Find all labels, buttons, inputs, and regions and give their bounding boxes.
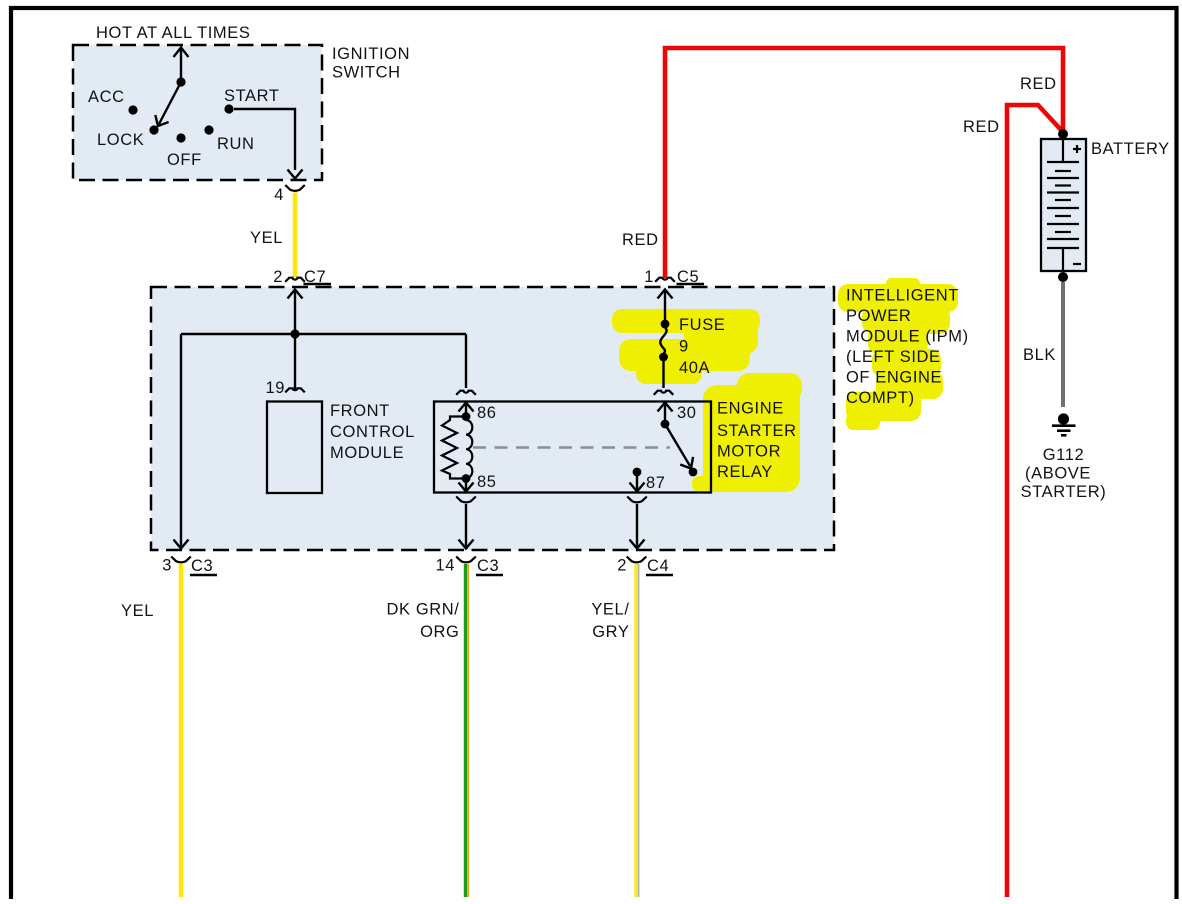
relay coil windings [466,420,472,478]
arrow at relay pin 85 exit [459,479,474,492]
junction dot [290,329,299,338]
contact dot START [224,104,233,113]
svg-text:FUSE: FUSE [679,316,725,334]
connector C7 hat [285,278,305,282]
svg-text:POWER: POWER [846,307,911,325]
ground G112 symbol [1052,413,1076,435]
entry arrow at relay pin 30 [658,403,673,425]
svg-text:RUN: RUN [217,135,255,153]
wire pin 85 to module exit [459,504,474,549]
relay pin 87 dot [633,468,642,477]
relay pin 85 dot [462,474,471,483]
wire to pin 3 exit [174,334,189,549]
svg-text:19: 19 [265,379,285,397]
front control module box outline [267,402,322,494]
wire from START contact to pin 4 [234,109,303,179]
svg-text:CONTROL: CONTROL [330,423,415,441]
fuse F9 element [660,328,666,354]
svg-text:COMPT): COMPT) [846,389,915,407]
contact dot RUN [204,125,213,134]
arrow at relay pin 87 exit [630,472,645,492]
relay coil resistor zigzag [442,417,466,479]
relay pin 30 connector hat [654,391,674,395]
front control module box fill [267,402,322,494]
connector cup below relay pin 87 [627,497,647,503]
ignition switch arrow to hot feed [174,48,189,83]
svg-text:FRONT: FRONT [330,402,390,420]
svg-text:9: 9 [679,338,689,356]
pin 19 connector hat [285,388,305,392]
ignition switch arm [155,82,181,126]
svg-text:BLK: BLK [1023,346,1056,364]
relay pin 30 dot [661,420,670,429]
wire fuse to relay pin 30 [662,357,664,388]
wire YEL lower left [179,564,184,897]
svg-text:ORG: ORG [420,623,459,641]
battery box [1041,139,1086,271]
svg-text:OF ENGINE: OF ENGINE [846,369,942,387]
svg-text:2: 2 [617,557,627,575]
wire to FCM pin 19 [294,334,296,389]
relay box fill [434,402,711,493]
battery positive terminal dot [1058,129,1068,139]
svg-text:YEL: YEL [250,229,283,247]
entry arrow at C7 into IPM [288,290,303,335]
svg-text:OFF: OFF [167,151,202,169]
svg-text:YEL: YEL [121,602,154,620]
svg-text:G112: G112 [1043,446,1085,464]
relay coil connector hat [456,391,476,395]
svg-text:GRY: GRY [592,623,629,641]
exit connector pin 3 C3 cup [171,557,191,563]
svg-text:C3: C3 [191,557,213,575]
svg-text:ACC: ACC [88,88,125,106]
highlight over FUSE label [612,309,760,384]
connector C5 hat [655,278,675,282]
svg-text:IGNITION: IGNITION [332,45,410,63]
IPM module housing box [151,287,834,550]
highlight over IPM location label [838,278,958,430]
entry arrow at relay pin 86 [459,403,474,417]
svg-text:INTELLIGENT: INTELLIGENT [846,287,959,305]
svg-text:4: 4 [274,186,284,204]
internal bus wire horizontal [181,333,466,335]
svg-text:MODULE: MODULE [330,444,404,462]
pin 4 connector cup [285,185,305,191]
exit connector pin 2 C4 cup [627,557,647,563]
contact dot OFF [176,133,185,142]
svg-text:DK GRN/: DK GRN/ [387,601,460,619]
svg-text:87: 87 [646,474,666,492]
fuse F9 bottom dot [659,353,668,362]
svg-text:C4: C4 [647,557,669,575]
wire BLK battery to ground [1061,282,1065,407]
svg-text:HOT AT ALL TIMES: HOT AT ALL TIMES [96,24,251,42]
svg-text:1: 1 [644,268,654,286]
relay armature dashed link [473,446,670,449]
svg-text:STARTER: STARTER [717,422,797,440]
svg-text:ENGINE: ENGINE [717,400,784,418]
svg-text:3: 3 [162,557,172,575]
svg-text:(ABOVE: (ABOVE [1025,465,1091,483]
fuse F9 top dot [661,320,670,329]
svg-text:40A: 40A [679,359,710,377]
svg-text:(LEFT SIDE: (LEFT SIDE [846,348,941,366]
svg-text:RELAY: RELAY [717,463,773,481]
svg-text:MODULE (IPM): MODULE (IPM) [846,328,969,346]
svg-text:2: 2 [273,268,283,286]
contact dot ACC [128,105,137,114]
svg-text:BATTERY: BATTERY [1091,140,1170,158]
ignition switch pivot dot [176,77,185,86]
relay switch arm [665,424,693,469]
svg-text:MOTOR: MOTOR [717,443,781,461]
svg-text:RED: RED [622,231,659,249]
ignition switch housing box [73,45,322,180]
wire YEL/GRY [636,564,639,897]
relay contact dot [689,468,698,477]
wire RED battery feed to C5 [665,48,1063,278]
wire YEL ignition to IPM [293,193,298,278]
wire DK GRN/ORG [466,564,469,897]
svg-text:30: 30 [677,404,697,422]
svg-text:STARTER): STARTER) [1021,483,1107,501]
svg-text:85: 85 [477,473,497,491]
svg-text:C3: C3 [477,557,499,575]
svg-text:START: START [224,87,280,105]
entry arrow at C5 into IPM [658,290,673,321]
highlight over ENGINE STARTER MOTOR RELAY label [692,373,802,492]
svg-text:14: 14 [435,557,455,575]
svg-text:RED: RED [963,118,1000,136]
relay box outline [434,402,711,493]
wire bus to relay coil [465,334,467,388]
connector cup below relay pin 85 [456,497,476,503]
svg-text:SWITCH: SWITCH [332,64,401,82]
svg-text:RED: RED [1020,75,1057,93]
battery negative terminal dot [1058,272,1068,282]
wire pin 87 to module exit [630,504,645,549]
relay pin 86 dot [462,412,471,421]
exit connector pin 14 C3 cup [456,557,476,563]
svg-text:LOCK: LOCK [97,131,144,149]
svg-text:86: 86 [477,404,497,422]
svg-text:YEL/: YEL/ [591,601,629,619]
contact dot LOCK [149,125,158,134]
wire RED battery to lower right [1007,105,1062,897]
